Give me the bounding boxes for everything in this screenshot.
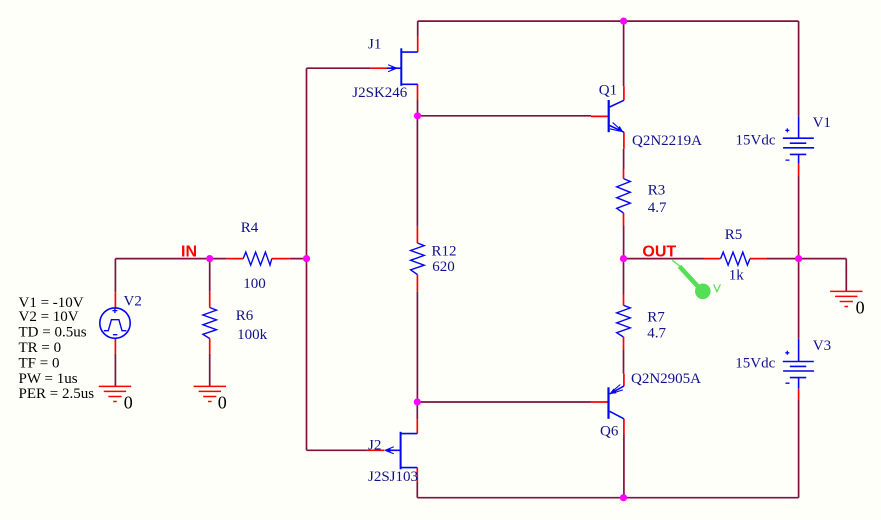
pin R6 top	[209, 291, 211, 307]
wire J2 drain stub	[416, 402, 418, 419]
svg-text:TR = 0: TR = 0	[19, 340, 62, 356]
wire node C to V3 top	[798, 259, 800, 339]
pin R3 bottom	[623, 213, 625, 226]
svg-text:TF = 0: TF = 0	[19, 356, 60, 372]
resistor R12	[411, 243, 425, 275]
svg-text:4.7: 4.7	[647, 325, 666, 341]
wire R3 to OUT	[623, 226, 625, 259]
junction node C (R5 / V1 / V3 / gnd)	[795, 255, 802, 262]
svg-text:V2: V2	[124, 293, 142, 309]
svg-text:4.7: 4.7	[648, 200, 667, 216]
junction OUT node	[620, 255, 627, 262]
svg-text:Q1: Q1	[599, 82, 617, 98]
svg-text:R6: R6	[236, 308, 254, 324]
wire Q6 collector to bottom rail	[623, 435, 625, 498]
svg-text:Q6: Q6	[600, 423, 619, 439]
wire OUT row	[624, 258, 799, 260]
svg-text:100: 100	[243, 276, 266, 292]
svg-text:TD = 0.5us: TD = 0.5us	[19, 324, 87, 340]
svg-text:0: 0	[218, 393, 227, 413]
pin R4 right	[272, 258, 290, 260]
svg-text:PW = 1us: PW = 1us	[19, 371, 78, 387]
svg-text:R4: R4	[241, 220, 259, 236]
svg-text:15Vdc: 15Vdc	[736, 132, 776, 148]
junction IN node	[206, 255, 213, 262]
svg-text:1k: 1k	[729, 267, 745, 283]
wire V1 bottom to node C	[798, 176, 800, 259]
JFET J1	[387, 48, 418, 86]
resistor R6	[203, 308, 217, 339]
pin R4 left	[227, 258, 243, 260]
svg-text:V3: V3	[813, 338, 831, 354]
pin J1 gate	[370, 67, 387, 69]
pin R7 top	[623, 294, 625, 305]
wire J1 gate to left vertical bus	[307, 68, 371, 450]
junction node A (J1 source / Q1 base / R12)	[414, 112, 421, 119]
wire OUT to R7	[623, 259, 625, 294]
pin Q1 emitter	[623, 132, 625, 149]
junction node B (R12 / J2 / Q6 base)	[414, 398, 421, 405]
pin V2 top	[114, 292, 116, 308]
svg-text:J2: J2	[368, 437, 381, 453]
wire IN row V2 to R4	[115, 258, 306, 260]
ground 0 (R6)	[194, 386, 226, 401]
pin J1 drain	[417, 37, 419, 52]
battery V3	[783, 339, 814, 389]
svg-text:100k: 100k	[237, 327, 268, 343]
resistor R4	[243, 252, 272, 265]
wire V2 column	[114, 259, 116, 387]
svg-text:R12: R12	[432, 243, 457, 259]
wire Q1 emitter to R3	[623, 149, 625, 169]
pin Q6 base	[591, 401, 609, 403]
pin R3 top	[623, 169, 625, 179]
svg-text:V1: V1	[813, 115, 831, 131]
wire J1 source to node A	[417, 100, 419, 116]
pin R5 right	[750, 258, 767, 260]
svg-text:IN: IN	[181, 243, 197, 260]
pin Q1 collector	[623, 86, 625, 100]
svg-text:R3: R3	[648, 183, 666, 199]
svg-text:R7: R7	[647, 310, 665, 326]
pin V1 bottom	[798, 164, 800, 176]
pin V2 bottom	[114, 338, 116, 353]
svg-text:0: 0	[856, 297, 865, 317]
svg-text:V2 = 10V: V2 = 10V	[19, 309, 79, 325]
transistor Q6	[609, 385, 624, 419]
wire R7 to Q6 emitter	[623, 350, 625, 374]
svg-text:PER = 2.5us: PER = 2.5us	[19, 386, 95, 402]
ground 0 (right)	[830, 291, 862, 306]
svg-text:J2SJ103: J2SJ103	[368, 469, 418, 485]
svg-text:R5: R5	[725, 227, 743, 243]
svg-text:J1: J1	[368, 37, 381, 53]
svg-text:Q2N2219A: Q2N2219A	[632, 133, 702, 149]
resistor R3	[617, 179, 631, 213]
pin J2 source	[416, 468, 418, 482]
wire R12 column	[416, 116, 418, 402]
battery V1	[783, 117, 814, 164]
wire R6 column	[209, 259, 211, 387]
wire top rail	[418, 21, 799, 117]
wire bottom rail	[417, 400, 798, 498]
pin R5 left	[704, 258, 721, 260]
pin V3 bottom	[798, 389, 800, 400]
resistor R5	[721, 252, 750, 265]
svg-text:0: 0	[124, 393, 133, 413]
junction R4 right / gate bus	[303, 255, 310, 262]
svg-text:OUT: OUT	[642, 243, 676, 260]
ground 0 (V2)	[99, 386, 131, 401]
pin R6 bottom	[209, 339, 211, 354]
svg-text:620: 620	[432, 259, 455, 275]
wire node B to Q6 base	[417, 401, 591, 403]
pin J1 source	[417, 84, 419, 100]
pin Q6 collector	[623, 419, 625, 435]
JFET J2	[385, 432, 417, 470]
svg-text:J2SK246: J2SK246	[352, 85, 408, 101]
pin J2 gate	[368, 449, 385, 451]
wire node C to right ground	[799, 259, 847, 292]
junction bottom rail / Q6 collector	[620, 494, 627, 501]
wire Q1 collector to top rail	[623, 21, 625, 86]
source V2	[100, 308, 130, 338]
svg-text:15Vdc: 15Vdc	[735, 356, 775, 372]
pin J2 drain	[416, 419, 418, 434]
wire node A to Q1 base	[418, 115, 592, 117]
pin R7 bottom	[623, 337, 625, 350]
pin Q1 base	[591, 115, 609, 117]
resistor R7	[617, 305, 631, 337]
pin R12 bottom	[416, 275, 418, 292]
svg-text:Q2N2905A: Q2N2905A	[631, 371, 701, 387]
pin R12 top	[416, 227, 418, 243]
voltage probe	[672, 260, 720, 299]
junction top rail / Q1 collector	[620, 18, 627, 25]
pin Q6 emitter	[623, 374, 625, 386]
transistor Q1	[609, 100, 624, 132]
